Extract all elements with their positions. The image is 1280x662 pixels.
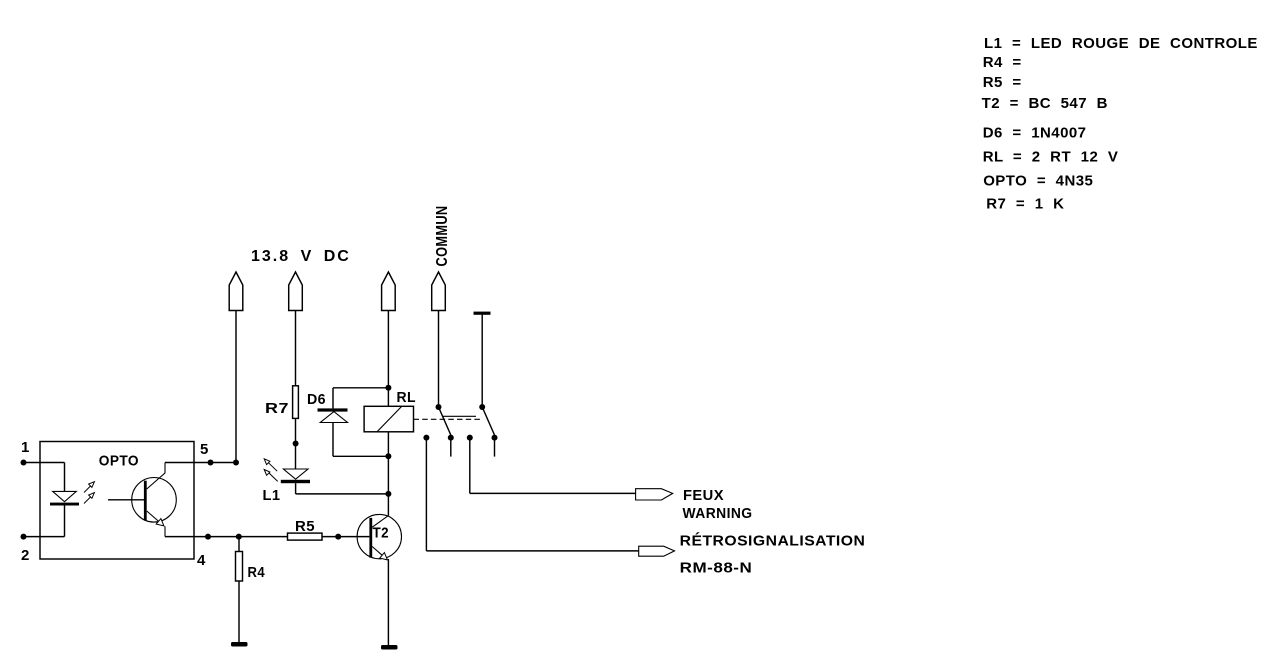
svg-text:T2: T2 [373,525,390,542]
svg-text:RM-88-N: RM-88-N [680,560,753,577]
svg-text:R7 = 1 K: R7 = 1 K [986,196,1064,213]
svg-text:R4 =: R4 = [983,54,1022,71]
svg-text:L1: L1 [263,487,281,504]
svg-text:OPTO = 4N35: OPTO = 4N35 [983,172,1093,189]
svg-text:R4: R4 [248,564,266,581]
svg-text:1: 1 [21,439,30,456]
svg-text:RL = 2 RT 12 V: RL = 2 RT 12 V [983,148,1119,165]
svg-text:L1 = LED ROUGE DE CONTROLE: L1 = LED ROUGE DE CONTROLE [984,35,1258,52]
svg-text:T2 = BC 547 B: T2 = BC 547 B [982,95,1108,112]
svg-text:R5: R5 [295,518,315,535]
svg-text:13.8 V DC: 13.8 V DC [251,248,351,265]
svg-text:R7: R7 [265,400,289,417]
svg-text:OPTO: OPTO [99,453,139,470]
svg-text:2: 2 [21,547,30,564]
svg-text:COMMUN: COMMUN [434,206,451,267]
svg-text:D6: D6 [307,391,326,408]
svg-text:RÉTROSIGNALISATION: RÉTROSIGNALISATION [680,533,866,550]
svg-text:FEUX: FEUX [683,487,724,504]
svg-text:R5 =: R5 = [983,74,1022,91]
svg-text:WARNING: WARNING [683,505,753,522]
svg-text:D6 = 1N4007: D6 = 1N4007 [983,124,1087,141]
svg-text:4: 4 [197,552,206,569]
svg-text:5: 5 [200,441,209,458]
svg-text:RL: RL [397,389,417,406]
